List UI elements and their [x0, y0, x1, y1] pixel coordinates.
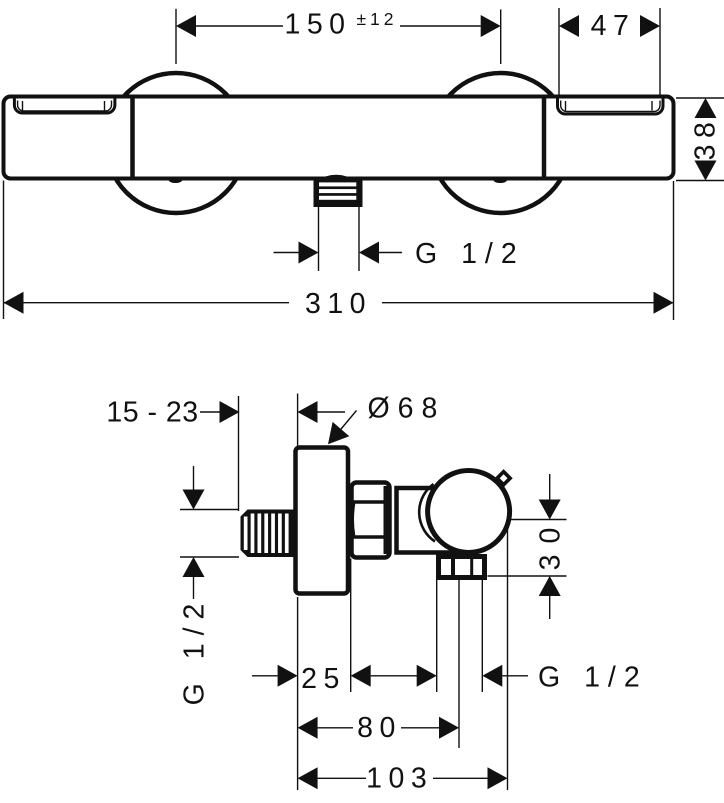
bar right end cap joint line	[542, 99, 547, 177]
svg-text:47: 47	[591, 10, 636, 42]
right end groove	[558, 99, 664, 115]
dimension 15 - 23	[106, 397, 345, 429]
extension line outlet axis	[458, 580, 460, 748]
left end groove	[14, 99, 115, 114]
svg-text:G 1/2: G 1/2	[179, 596, 211, 706]
extension line escutcheon face	[297, 597, 299, 790]
svg-text:±12: ±12	[356, 9, 397, 29]
temperature stop tab	[497, 472, 510, 485]
left connection nub	[169, 178, 183, 183]
dimension 25	[252, 663, 371, 695]
wall supply nipple G 1/2 thread	[241, 510, 298, 558]
svg-text:G 1/2: G 1/2	[538, 662, 648, 694]
wall reference line	[238, 396, 240, 511]
dimension 103	[298, 762, 508, 794]
extension line knob front	[507, 520, 509, 790]
svg-text:38: 38	[690, 116, 722, 161]
right connection nub	[493, 178, 507, 183]
extension line escutcheon face upper	[297, 394, 299, 447]
left escutcheon circle	[106, 73, 246, 213]
dimension 150 plus/minus 12	[176, 9, 501, 65]
escutcheon flange (side)	[296, 448, 349, 594]
dimension 310	[4, 181, 674, 321]
svg-text:Ø68: Ø68	[368, 393, 446, 425]
shower outlet nut	[439, 555, 485, 578]
extension line outlet right	[481, 580, 483, 692]
svg-text:103: 103	[366, 762, 433, 794]
union nut	[352, 483, 392, 558]
dimension 80	[298, 712, 459, 744]
dimension G 1/2 shower outlet	[371, 662, 648, 694]
extension line nut right	[350, 559, 352, 693]
dimension 47	[559, 8, 660, 96]
right escutcheon circle	[431, 73, 571, 213]
valve body	[397, 488, 460, 553]
bar left end cap joint line	[130, 99, 135, 177]
svg-text:80: 80	[357, 712, 402, 744]
dimension 38	[676, 98, 724, 181]
dimension G 1/2 outlet	[274, 207, 525, 271]
mixer bar body	[4, 97, 674, 179]
svg-text:15 - 23: 15 - 23	[106, 397, 198, 429]
body cap arc	[419, 484, 435, 542]
svg-text:G 1/2: G 1/2	[415, 238, 525, 270]
thermostat knob circle	[428, 471, 510, 553]
label diameter 68 with leader	[328, 393, 445, 445]
bottom outlet thread connector	[314, 175, 363, 207]
svg-text:25: 25	[301, 663, 346, 695]
svg-text:310: 310	[305, 288, 372, 320]
dimension 30	[488, 474, 567, 619]
svg-text:30: 30	[535, 517, 567, 571]
svg-text:150: 150	[284, 9, 351, 41]
left G 1/2 dimension	[179, 466, 240, 705]
extension line outlet left	[436, 580, 438, 692]
